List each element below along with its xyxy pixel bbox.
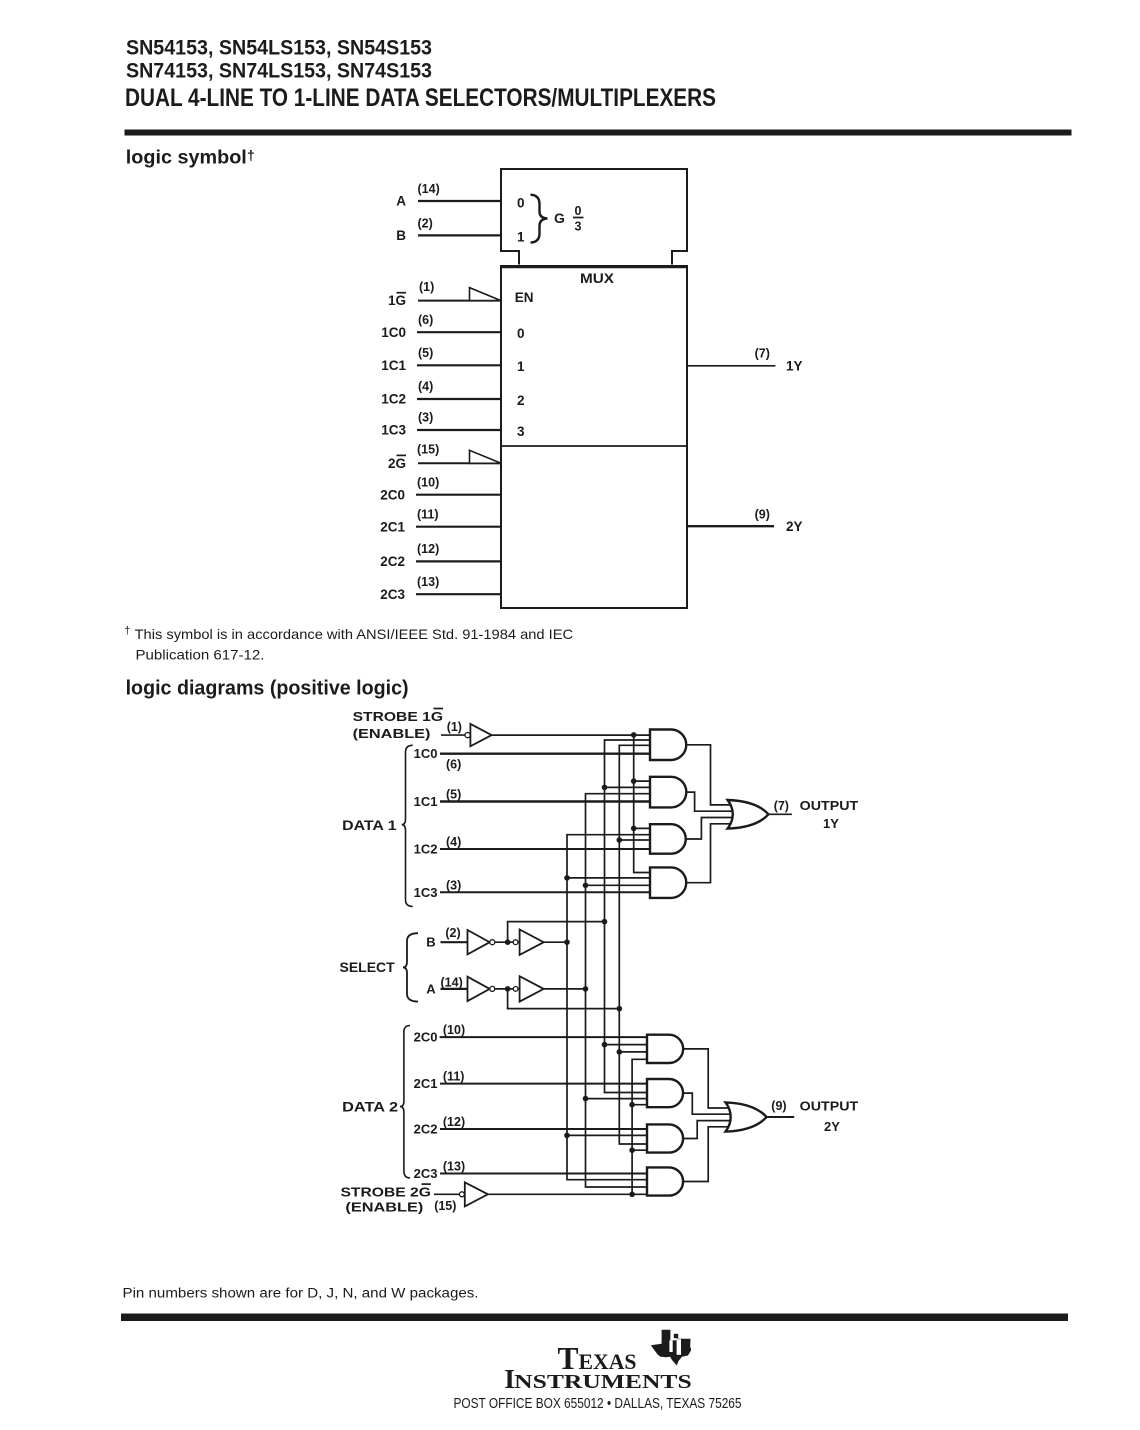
svg-text:(10): (10) [417,475,439,489]
select B inverter triangle [468,930,490,954]
svg-text:1: 1 [517,359,525,374]
gate2 output connector [686,792,741,811]
svg-text:2: 2 [517,393,525,408]
strobe2 input wire [434,1193,460,1195]
svg-text:B: B [426,935,435,950]
svg-text:STROBE 2G: STROBE 2G [341,1185,431,1200]
svg-text:(2): (2) [445,926,460,940]
gate3 output connector [686,818,741,840]
gate6 output connector [683,1093,740,1114]
svg-text:(1): (1) [447,720,462,734]
svg-text:1Y: 1Y [786,358,803,373]
AND gate 1 (1C0) [650,730,686,761]
svg-text:1C0: 1C0 [381,325,406,340]
OR gate 2 output wire [767,1116,795,1118]
wire strobe2 tap to gate7 [632,1149,649,1151]
svg-text:(ENABLE): (ENABLE) [353,726,431,741]
svg-text:(9): (9) [771,1099,786,1113]
svg-text:(6): (6) [418,313,433,327]
junction Anot/gate5 [617,1049,623,1055]
junction Bnot tap [505,939,511,945]
wire strobe1 output to gate1 [492,734,652,736]
svg-text:MUX: MUX [580,271,614,286]
svg-text:SN54153, SN54LS153, SN54S153: SN54153, SN54LS153, SN54S153 [126,37,432,60]
input 2C1 wire [416,526,501,528]
1G overline [397,292,407,294]
gate1 output connector [686,745,741,805]
svg-text:(14): (14) [441,976,463,990]
svg-text:This symbol is in accordance w: This symbol is in accordance with ANSI/I… [135,626,573,642]
svg-text:1C1: 1C1 [414,794,438,809]
wire strobe1 tap to gate3 [634,827,652,829]
OR gate 2 [726,1102,767,1131]
svg-text:DUAL 4-LINE TO 1-LINE DATA SEL: DUAL 4-LINE TO 1-LINE DATA SELECTORS/MUL… [125,84,716,112]
footer rule [121,1314,1068,1322]
junction A/gate4 [583,883,589,889]
svg-text:1G: 1G [388,293,406,308]
junction strobe2/gate6 [629,1102,635,1108]
wire Bnot feed [508,922,605,943]
wire strobe1 tap to gate2 [634,780,652,782]
svg-text:NSTRUMENTS: NSTRUMENTS [514,1371,692,1393]
output 1Y wire [687,365,775,367]
junction A/gate6 [583,1096,589,1102]
wire Anot feed [508,989,620,1009]
junction strobe2/gate7 [629,1147,635,1153]
svg-text:†: † [124,625,130,637]
svg-text:1Y: 1Y [823,816,839,831]
MUX block [501,266,687,608]
svg-text:(3): (3) [418,411,433,425]
input A wire [418,200,501,202]
input B wire [418,234,501,236]
svg-text:POST OFFICE BOX 655012 • DALLA: POST OFFICE BOX 655012 • DALLAS, TEXAS 7… [454,1396,742,1412]
svg-text:2C3: 2C3 [414,1166,438,1181]
junction strobe1/gate2 [631,778,637,784]
svg-text:(7): (7) [774,799,789,813]
data wire 1C3 [440,891,652,893]
wire B buffer out [544,941,567,943]
wire Anot tap to gate5 [619,1051,649,1053]
gate8 output connector [683,1127,740,1182]
gate4 output connector [686,824,741,883]
junction Bnot/gate5 [602,1042,608,1048]
svg-text:2C1: 2C1 [380,519,405,534]
header rule [125,130,1072,136]
svg-text:SN74153, SN74LS153, SN74S153: SN74153, SN74LS153, SN74S153 [126,60,432,83]
input 1C2 wire [417,398,501,400]
MUX section divider [501,445,687,447]
svg-text:(4): (4) [446,835,461,849]
select A inverter triangle [468,977,490,1001]
svg-text:1C0: 1C0 [414,746,438,761]
svg-text:(15): (15) [434,1199,456,1213]
input 2C3 wire [416,593,501,595]
wire A tap to gate6 [586,1098,650,1100]
data wire 1C2 [440,848,652,850]
wire vertical bus B-not [605,740,653,1093]
svg-text:0: 0 [517,326,525,341]
wire B tap to gate4 [567,877,652,879]
MUX top thick edge [501,265,687,268]
1G polarity wedge [470,288,502,301]
select B buffer triangle [520,930,544,955]
junction Anot/gate3 [617,837,623,843]
svg-text:2C2: 2C2 [380,554,405,569]
svg-text:A: A [396,194,406,209]
svg-text:(14): (14) [418,182,440,196]
strobe1 inverter triangle [470,724,491,746]
wire A inv to buffer [495,988,521,990]
common control block G0/3 [501,169,687,265]
AND gate 6 (2C1) [647,1079,683,1107]
input 1G wire [418,300,501,302]
junction strobe1/gate1 [631,732,637,738]
svg-text:OUTPUT: OUTPUT [800,1099,859,1114]
wire vertical bus A-true [586,794,653,1187]
svg-text:0: 0 [575,204,582,218]
wire vertical bus B-true [567,835,652,1180]
OR gate 1 [728,800,769,829]
svg-text:1: 1 [517,229,525,244]
wire B inv to buffer [495,941,521,943]
svg-text:2C2: 2C2 [414,1122,438,1137]
wire B tap to gate7 [567,1134,649,1136]
data wire 1C0 [440,753,652,755]
svg-text:STROBE 1G: STROBE 1G [353,709,443,724]
junction Anot feed [617,1006,623,1012]
input 2G wire [418,462,501,464]
input 2C2 wire [416,560,501,562]
wire Bnot tap to gate2 [605,786,653,788]
AND gate 8 (2C3) [647,1167,683,1195]
SELECT brace [403,933,418,1001]
svg-text:EN: EN [515,290,534,305]
OR gate 1 output wire [769,813,792,815]
wire strobe2 output to gate8 [488,1193,649,1195]
svg-text:(11): (11) [417,507,439,521]
input 2C0 wire [416,494,501,496]
strobe2 inverter bubble [459,1192,464,1197]
DATA 1 bracket [402,745,413,906]
junction Bnot feed [602,919,608,925]
data wire 2C3 [440,1173,649,1175]
svg-text:(10): (10) [443,1023,465,1037]
svg-text:(15): (15) [417,443,439,457]
junction Anot tap [505,986,511,992]
data wire 2C1 [440,1083,649,1085]
svg-text:Publication 617-12.: Publication 617-12. [136,646,265,662]
svg-text:(12): (12) [417,542,439,556]
control block brace [531,195,548,243]
junction B buffer out [564,939,570,945]
svg-text:3: 3 [517,424,525,439]
select A input wire [441,988,469,990]
svg-text:3: 3 [575,220,582,234]
svg-text:SELECT: SELECT [340,960,396,975]
TI logo ti cutouts [669,1340,672,1352]
svg-text:(5): (5) [418,346,433,360]
svg-text:logic symbol: logic symbol [126,148,247,169]
select A buffer triangle [520,976,544,1001]
junction Bnot/gate2 [602,785,608,791]
wire Bnot tap to gate5 [605,1044,650,1046]
AND gate 3 (1C2) [650,824,686,854]
DATA 2 bracket [400,1026,410,1178]
junction strobe1/gate3 [631,826,637,832]
svg-text:2Y: 2Y [824,1119,840,1134]
input 1C0 wire [417,331,501,333]
strobe1 wire before bubble [441,734,465,736]
junction B/gate7 [564,1133,570,1139]
svg-text:1C2: 1C2 [381,392,406,407]
svg-text:(4): (4) [418,380,433,394]
data wire 1C1 [440,800,652,802]
svg-text:2C3: 2C3 [380,587,405,602]
select B inverter bubble [490,940,495,945]
svg-text:B: B [396,228,406,243]
wire Anot tap to gate3 [619,839,652,841]
svg-text:(3): (3) [446,878,461,892]
svg-text:OUTPUT: OUTPUT [800,798,859,813]
gate5 output connector [683,1049,740,1108]
svg-text:2C1: 2C1 [414,1076,438,1091]
STROBE 1G overline [434,708,444,710]
AND gate 4 (1C3) [650,867,686,898]
svg-text:(6): (6) [446,758,461,772]
TI logo i dot [674,1334,678,1338]
2G overline [397,454,407,456]
svg-text:(13): (13) [443,1160,465,1174]
svg-text:1C2: 1C2 [414,842,438,857]
svg-text:2C0: 2C0 [380,487,405,502]
svg-text:(12): (12) [443,1115,465,1129]
select A inverter bubble [490,986,495,991]
svg-text:A: A [426,981,436,996]
junction B/gate4 [564,875,570,881]
output 2Y wire [687,525,774,527]
svg-text:1C3: 1C3 [414,885,438,900]
wire vertical bus strobe1 [634,735,652,873]
fraction bar [573,217,584,219]
svg-text:1C3: 1C3 [381,423,406,438]
wire vertical bus A-not [619,745,652,1144]
svg-text:(5): (5) [446,788,461,802]
svg-text:Pin numbers shown are for D, J: Pin numbers shown are for D, J, N, and W… [123,1285,479,1300]
select B buffer bubble [513,940,518,945]
svg-text:0: 0 [517,196,525,211]
AND gate 7 (2C2) [647,1124,683,1152]
svg-text:(11): (11) [443,1070,465,1084]
svg-text:(9): (9) [755,508,770,522]
svg-text:(1): (1) [419,280,434,294]
junction strobe2 line [629,1192,635,1198]
svg-text:(2): (2) [418,217,433,231]
junction A buffer out [583,986,589,992]
svg-text:1C1: 1C1 [381,358,406,373]
svg-text:2C0: 2C0 [414,1030,438,1045]
gate7 output connector [683,1121,740,1139]
data wire 2C0 [440,1036,649,1038]
input 1C3 wire [417,429,501,431]
select A buffer bubble [513,987,518,992]
AND gate 2 (1C1) [650,777,686,808]
wire strobe2 tap to gate6 [632,1104,649,1106]
input 1C1 wire [417,364,501,366]
strobe1 inverter bubble [465,733,470,738]
2G polarity wedge [470,450,502,463]
svg-text:(7): (7) [755,347,770,361]
svg-text:logic diagrams (positive logic: logic diagrams (positive logic) [126,677,409,699]
data wire 2C2 [440,1128,649,1130]
svg-text:DATA 2: DATA 2 [342,1100,398,1115]
svg-text:2Y: 2Y [786,519,803,534]
wire A tap to gate4 [586,884,653,886]
svg-text:(ENABLE): (ENABLE) [345,1199,423,1214]
svg-text:†: † [247,147,255,163]
TI logo Texas state [651,1330,691,1366]
svg-text:(13): (13) [417,575,439,589]
svg-text:G: G [554,210,565,226]
svg-text:2G: 2G [388,456,406,471]
select B input wire [441,941,469,943]
wire A buffer out [544,988,586,990]
svg-text:DATA 1: DATA 1 [342,818,397,833]
strobe2 inverter triangle [465,1182,488,1206]
STROBE 2G overline [422,1183,431,1185]
wire vertical bus strobe2 [632,1059,649,1194]
AND gate 5 (2C0) [647,1035,683,1063]
